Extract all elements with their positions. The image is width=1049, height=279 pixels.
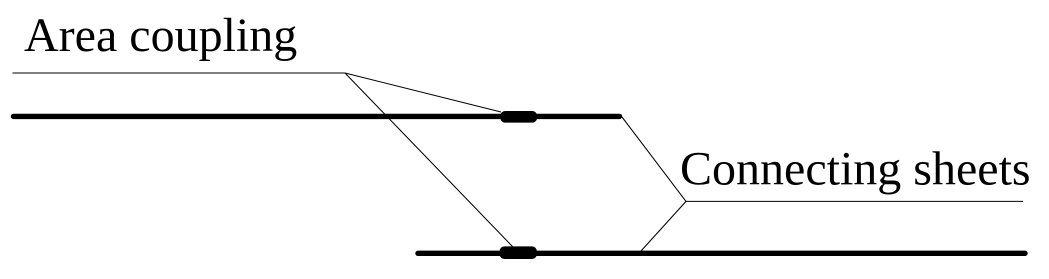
- leader from Connecting sheets to top sheet end: [622, 117, 686, 201]
- svg-text:Connecting sheets: Connecting sheets: [680, 143, 1031, 196]
- bottom coupling blob: [500, 246, 537, 259]
- leader from Area coupling to bottom coupling blob: [345, 73, 513, 247]
- bottom sheet line: [418, 251, 1025, 256]
- leader from Connecting sheets to bottom sheet: [641, 201, 686, 251]
- leader from Area coupling to top coupling blob: [345, 73, 501, 112]
- leader underline under Area coupling: [13, 72, 346, 74]
- top coupling blob: [500, 111, 537, 123]
- underline under Connecting sheets: [686, 200, 1023, 202]
- svg-text:Area coupling: Area coupling: [24, 9, 297, 62]
- top sheet line: [14, 114, 620, 119]
